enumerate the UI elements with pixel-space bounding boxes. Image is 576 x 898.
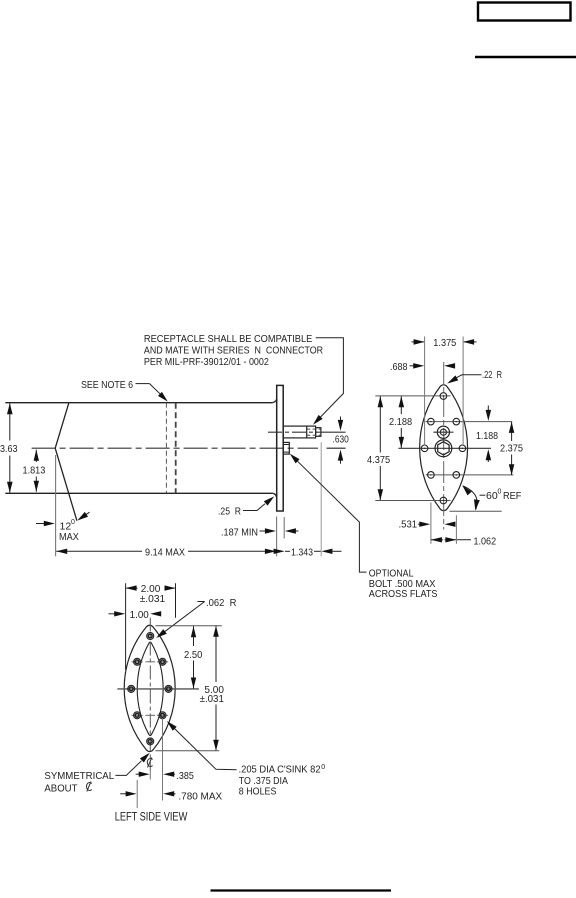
2.50 top extension <box>155 625 221 627</box>
5.00 bottom extension <box>155 750 219 752</box>
hole mid-left <box>128 685 135 692</box>
.531 arrows <box>418 523 424 525</box>
face vertical centerline <box>443 362 445 530</box>
svg-text:8 HOLES: 8 HOLES <box>239 786 277 798</box>
outer lens outline <box>124 625 175 751</box>
hole mid-right <box>165 685 172 692</box>
flange face lens outline <box>420 385 468 511</box>
svg-text:.531: .531 <box>399 519 418 531</box>
dim 3.63 extension handled by body edges; dimension line <box>9 403 11 493</box>
hole r4-right <box>159 712 166 719</box>
.062R leader <box>164 602 205 633</box>
svg-text:1.188: 1.188 <box>476 430 498 442</box>
hole row line middle <box>398 447 491 449</box>
hole upper-right <box>453 418 460 425</box>
dim .630 lower extension seg <box>327 447 346 449</box>
12deg arrow on slant <box>82 512 90 517</box>
dim 2.50 line <box>193 626 195 646</box>
hole r2-right <box>159 658 166 665</box>
svg-text:.688: .688 <box>390 361 408 373</box>
receptacle thread dashed bottom <box>307 434 321 436</box>
svg-text:LEFT SIDE VIEW: LEFT SIDE VIEW <box>115 811 188 823</box>
dim 5.00 line <box>215 626 217 682</box>
hole mid-left <box>421 445 428 452</box>
svg-text:4.375: 4.375 <box>367 454 390 466</box>
svg-text:.062 R: .062 R <box>206 597 237 609</box>
svg-text:1.813: 1.813 <box>23 465 46 477</box>
hole row line top <box>375 395 450 397</box>
hole lower-right <box>453 472 460 479</box>
hole top <box>440 393 447 400</box>
row2 cross tick <box>146 661 156 663</box>
dim 2.00 line and arrows <box>126 587 137 589</box>
svg-text:0: 0 <box>498 489 502 496</box>
taper upper edge <box>55 403 69 449</box>
hole lower-left <box>428 472 435 479</box>
1.343 dimension line and arrows <box>274 549 285 554</box>
hole mid-right <box>459 445 466 452</box>
receptacle cross tick <box>433 431 453 433</box>
dim 2.00 extension lines <box>125 583 127 670</box>
see note 6 dashed line B <box>175 403 177 494</box>
row4 cross tick <box>146 714 156 716</box>
.385 arrows <box>136 773 142 775</box>
.385 extension lines <box>149 770 151 780</box>
9.14 dimension line <box>56 550 142 552</box>
hole ticks row2 <box>132 661 143 663</box>
taper lower edge extended for 12deg dim <box>55 448 77 521</box>
dim 2.188 line <box>400 396 402 414</box>
dim 1.00 arrows <box>109 613 116 615</box>
svg-text:60: 60 <box>486 490 498 502</box>
title box top right <box>478 3 571 21</box>
hole row line upper <box>426 421 513 423</box>
dim 1.375 line and arrows <box>412 341 424 343</box>
receptacle end cap <box>316 428 321 437</box>
receptacle mid vertical <box>306 426 308 438</box>
.780 arrows <box>120 793 126 795</box>
middle row line <box>117 688 198 690</box>
dim .630 bottom arrow <box>340 460 342 464</box>
svg-text:.630: .630 <box>333 434 349 446</box>
svg-text:1.343: 1.343 <box>291 547 313 559</box>
receptacle body outline <box>283 426 315 438</box>
dim .630 top arrow <box>340 417 342 422</box>
bolt hex <box>438 442 449 455</box>
svg-text:9.14 MAX: 9.14 MAX <box>145 547 185 559</box>
svg-text:.780 MAX: .780 MAX <box>178 791 222 803</box>
dim 4.375 line <box>379 396 381 452</box>
bolt head flat lines <box>283 444 289 446</box>
receptacle circles on face <box>437 426 449 438</box>
svg-text:ACROSS FLATS: ACROSS FLATS <box>369 588 438 600</box>
dim 1.062 line <box>431 539 443 541</box>
hole row line lower <box>426 474 514 476</box>
hole r4-left <box>134 712 141 719</box>
dim 2.375 line <box>511 422 513 441</box>
hole row line bottom <box>375 500 450 502</box>
svg-text:±.031: ±.031 <box>200 693 224 705</box>
dim 3.63 arrows <box>7 403 13 414</box>
top fillet .25R <box>272 399 276 403</box>
svg-text:.22 R: .22 R <box>482 369 502 381</box>
svg-text:SYMMETRICAL: SYMMETRICAL <box>44 770 114 782</box>
see note 6 leader <box>136 383 150 385</box>
vertical centerline <box>149 618 151 771</box>
hole r2-left <box>134 658 141 665</box>
svg-text:2.50: 2.50 <box>184 649 202 661</box>
.22R leader <box>456 375 482 378</box>
dim .688 arrows <box>410 365 417 367</box>
svg-text:SEE NOTE 6: SEE NOTE 6 <box>81 379 133 391</box>
svg-text:0: 0 <box>71 519 75 526</box>
svg-text:.205 DIA C'SINK 82: .205 DIA C'SINK 82 <box>239 764 321 776</box>
svg-text:ABOUT: ABOUT <box>44 782 78 794</box>
bolt circle on face <box>435 440 452 457</box>
page frame elements <box>211 3 576 891</box>
hole upper-left <box>428 418 435 425</box>
hole bottom <box>440 497 447 504</box>
svg-text:2.188: 2.188 <box>389 416 412 428</box>
dim 1.813 line <box>35 450 37 492</box>
svg-text:1.375: 1.375 <box>433 337 456 349</box>
9.14 left extension line <box>55 455 57 556</box>
svg-text:1.062: 1.062 <box>474 536 497 548</box>
cylinder body top edge <box>5 402 272 404</box>
60 deg leader line <box>480 494 486 496</box>
optional bolt side view <box>283 442 289 454</box>
12deg arrow horizontal <box>36 523 48 525</box>
1.343 right extension <box>320 442 322 556</box>
1.062 right extension <box>455 515 457 544</box>
svg-text:REF: REF <box>503 490 521 502</box>
.780 left extension <box>136 780 138 808</box>
.531 extension lines <box>430 503 432 544</box>
svg-text:PER MIL-PRF-39012/01 - 0002: PER MIL-PRF-39012/01 - 0002 <box>144 356 269 368</box>
svg-text:.25 R: .25 R <box>218 506 241 518</box>
receptacle centerline <box>268 431 322 433</box>
.187 arrows <box>260 530 267 532</box>
cylinder body bottom edge <box>5 492 273 494</box>
.25R leader <box>243 504 265 511</box>
footer rule <box>211 889 392 891</box>
60 deg arc <box>463 486 477 510</box>
svg-text:.385: .385 <box>176 770 194 782</box>
cylinder centerline <box>32 447 318 449</box>
symmetrical leader <box>115 761 141 776</box>
svg-text:RECEPTACLE SHALL BE COMPATIBLE: RECEPTACLE SHALL BE COMPATIBLE <box>144 333 312 345</box>
flange side bar <box>277 385 284 511</box>
hole bottom <box>147 738 154 745</box>
.187 extension lines <box>276 517 278 557</box>
receptacle note leader <box>316 338 344 420</box>
svg-text:.187 MIN: .187 MIN <box>221 527 258 539</box>
optional bolt leader <box>298 461 367 572</box>
svg-text:MAX: MAX <box>59 531 79 543</box>
1.375 extension lines <box>424 337 426 446</box>
dim 1.188 arrows <box>487 406 489 411</box>
hole ticks row4 <box>132 714 143 716</box>
svg-text:2.375: 2.375 <box>500 443 523 455</box>
see note 6 dashed line A <box>165 403 167 494</box>
centerline symbol below tip <box>147 758 152 768</box>
header rule <box>475 56 576 58</box>
inner lens outline <box>137 642 163 735</box>
dim 1.813 arrows <box>34 450 39 461</box>
receptacle thread dashed top <box>307 428 321 430</box>
svg-text:AND MATE WITH SERIES N CONNE: AND MATE WITH SERIES N CONNECTOR <box>144 344 324 356</box>
svg-text:1.00: 1.00 <box>130 609 149 621</box>
svg-text:±.031: ±.031 <box>140 593 166 605</box>
svg-text:0: 0 <box>321 764 325 771</box>
svg-text:3.63: 3.63 <box>0 443 18 455</box>
hole top <box>147 633 154 640</box>
bottom fillet .25R <box>273 493 277 497</box>
.205 leader <box>175 729 237 770</box>
centerline glyph after ABOUT <box>86 782 91 792</box>
bottom tip extension <box>449 510 501 512</box>
